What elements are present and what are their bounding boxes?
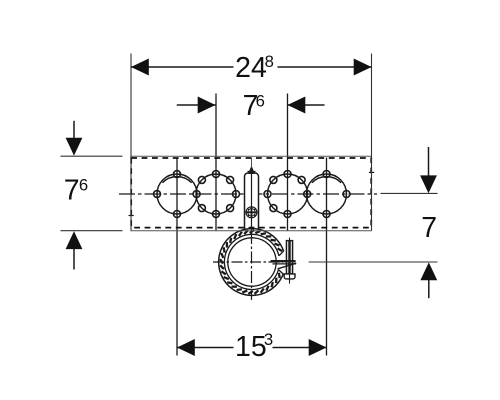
svg-text:8: 8 <box>265 52 274 71</box>
bracket body <box>245 166 259 232</box>
dim 7.6 top: left arrow <box>198 97 216 114</box>
svg-text:3: 3 <box>264 330 273 349</box>
flange F2 circle <box>196 174 236 214</box>
dim 24.8: right arrow <box>354 59 372 76</box>
shared bolt hole F1/F2 <box>193 191 200 198</box>
flange F4 collar arc <box>312 177 341 183</box>
dim 7 right: top arrow <box>428 147 430 178</box>
clamp bolt shaft <box>271 238 297 284</box>
screw U on bracket <box>246 207 257 218</box>
vertical centerline flange F3 / ext line 7.6 right <box>287 94 289 231</box>
pipe clamp ring <box>219 229 286 296</box>
dim 7 right: bottom arrow <box>428 278 430 298</box>
clamp band end caps <box>279 251 284 256</box>
pipe circle <box>228 238 276 286</box>
svg-text:6: 6 <box>256 91 265 110</box>
dim 7.6 top: dimension line left <box>177 104 216 106</box>
svg-text:6: 6 <box>79 175 88 194</box>
dim 15.3: right arrow <box>309 339 327 356</box>
dim 24.8: extension line left <box>130 54 132 231</box>
dim 7 right: extension line bottom <box>309 261 438 263</box>
dim 7.6 top: right arrow <box>288 97 306 114</box>
svg-text:24: 24 <box>235 52 267 84</box>
bracket top tab <box>248 166 255 175</box>
clamp bolt head <box>284 274 295 279</box>
plate top edge solid <box>131 155 372 157</box>
flange F4 circle <box>307 174 347 214</box>
flange F3 circle <box>268 174 308 214</box>
horizontal centerline of flanges <box>119 193 377 195</box>
vertical centerline flange F1 / ext line 15.3 left <box>176 158 178 356</box>
shared bolt hole F3/F4 <box>304 191 311 198</box>
clamp band inner circle <box>224 234 279 289</box>
plate dashed outline <box>131 158 371 228</box>
clamp lower tab diagonal <box>278 263 297 269</box>
flange F1 circle <box>157 174 347 214</box>
dim 7.6 left: extension line bottom <box>61 230 123 232</box>
svg-text:15: 15 <box>235 331 267 363</box>
dim 7.6 left: bottom arrow <box>73 247 75 270</box>
clamp bolt centerline <box>289 238 291 284</box>
dim 7.6 left: extension line top <box>61 155 123 157</box>
vertical centerline flange F2 / ext line 7.6 left <box>215 94 217 231</box>
vertical centerline bracket and clamp <box>251 158 253 169</box>
flange F2 bolt holes <box>198 171 239 218</box>
clamp outer circle <box>219 229 284 296</box>
svg-text:7: 7 <box>64 174 80 206</box>
dim 15.3: dimension line <box>177 347 234 349</box>
flange F1 bolt holes <box>154 171 181 218</box>
clamp tab thick line <box>271 260 296 262</box>
dim 24.8: extension line right <box>371 54 373 231</box>
clamp horizontal centerline <box>213 261 283 263</box>
flange F4 bolt holes <box>323 171 350 218</box>
dim 24.8: dimension line <box>131 66 234 68</box>
svg-text:7: 7 <box>421 212 437 244</box>
dim 7.6 left: top arrow <box>73 121 75 140</box>
flange F1 collar arc <box>162 177 191 183</box>
plate bottom edge solid <box>131 230 372 232</box>
plate edge tick right <box>369 171 374 173</box>
dim 7 right: extension line top <box>381 192 438 194</box>
dim 15.3: left arrow <box>177 339 195 356</box>
vertical centerline flange F4 / ext line 15.3 right <box>326 158 328 356</box>
clamp hatch <box>220 230 282 294</box>
dim 7.6 top: dimension line right <box>288 104 325 106</box>
plate edge tick left <box>129 215 134 217</box>
flange F3 bolt holes <box>264 171 305 218</box>
dim 24.8: left arrow <box>131 59 149 76</box>
